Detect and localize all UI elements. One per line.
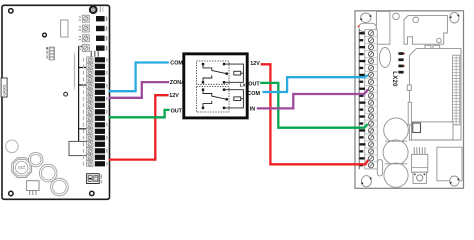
buzzer/hole bottom-right of LX20 xyxy=(450,176,460,186)
wire 12V (red) from relay module to LX20 board xyxy=(261,64,369,164)
label LX20 (rotated board name) xyxy=(391,71,398,87)
component outline (vertical rectangle) upper-left area xyxy=(61,20,68,37)
grommet ring at top of terminal strip xyxy=(90,6,104,13)
transformer oval LX20 xyxy=(379,48,390,68)
buzzer/hole top-left of LX20 xyxy=(360,13,371,22)
connector PCL-W (4-pin header) with silkscreen label xyxy=(46,47,54,60)
relay module LK enclosure xyxy=(184,54,247,118)
terminal strip TS2 zone/power rows (left board) xyxy=(83,57,107,167)
label ZONA (module left pin) xyxy=(170,80,185,86)
buzzer/hole below terminal strip LX20 xyxy=(361,176,371,187)
electrolytic capacitor C10 (top circle) xyxy=(384,118,409,143)
wire OUT (green) from relay module to LX20 board xyxy=(260,83,368,128)
test point circle left of strip xyxy=(64,92,68,96)
capacitor ring C3 xyxy=(51,178,69,196)
component outline rectangle above bottom rows xyxy=(69,141,87,155)
wire 12V (red) from left board to relay module xyxy=(109,95,169,159)
small square component below thin bar xyxy=(412,125,417,130)
component tall rectangle top area LX20 xyxy=(376,11,390,44)
wire IN (purple) from relay module to LX20 board xyxy=(257,90,368,109)
faint circle component above octagon xyxy=(6,140,19,153)
capacitor ring C1 bottom-left xyxy=(29,152,43,166)
label 12V (module left pin) xyxy=(169,93,179,99)
main module rectangle LX20 (chamfered corner) xyxy=(409,48,461,140)
capacitor ring C2 xyxy=(39,164,57,182)
terminal strip TS1 relay output rows (left board top) xyxy=(79,15,108,51)
buzzer/hole top-right of LX20 xyxy=(450,12,460,23)
svg-text:12V: 12V xyxy=(169,93,179,99)
svg-text:220: 220 xyxy=(17,165,25,170)
varistor/speaker 220 (octagon) xyxy=(12,158,32,178)
label LK (module name) xyxy=(240,83,247,89)
wire COM (blue) from left board to relay module xyxy=(109,63,169,92)
svg-text:COM: COM xyxy=(170,61,183,67)
label COM (module left pin) xyxy=(170,61,183,67)
label COM (module right pin) xyxy=(247,91,260,97)
svg-text:OUT: OUT xyxy=(248,82,260,88)
svg-text:OUT: OUT xyxy=(171,108,183,114)
capacitor junction chords xyxy=(385,141,408,164)
label OUT (module left pin) xyxy=(171,108,183,114)
svg-text:12V: 12V xyxy=(250,61,260,67)
electrolytic capacitor C12 (bottom circle) xyxy=(384,163,408,187)
mounting hole bottom-middle xyxy=(90,191,94,195)
relay outline (stadium) top-left of LX20 xyxy=(358,23,377,31)
bus bracket wire on board (vertical with taps) xyxy=(79,47,86,142)
label IN (module right pin) xyxy=(250,106,255,112)
small oval component bottom-left LX20 xyxy=(377,160,382,176)
label box UA003 on left edge xyxy=(1,78,7,97)
small tab on main module left edge xyxy=(407,85,411,90)
transistor/regulator Q1 (TO-220) bottom-left xyxy=(27,181,39,195)
mounting hole top-left xyxy=(9,9,13,13)
label OUT (module right pin) xyxy=(248,82,260,88)
two pad squares below heatsink xyxy=(425,45,440,50)
silkscreen relay contact labels (three vertical marks) xyxy=(91,51,99,57)
svg-text:UA003: UA003 xyxy=(3,85,7,96)
svg-text:LX20: LX20 xyxy=(391,71,398,87)
LED/jumper column on LX20 xyxy=(398,52,405,73)
mounting hole mid-left xyxy=(43,33,47,37)
silkscreen text column (vertical) left of mid terminals xyxy=(74,52,75,90)
mounting hole bottom-left xyxy=(9,191,13,195)
jumper block JP1 with DIP switches xyxy=(87,174,102,184)
wire ZONA (purple) from left board to relay module xyxy=(109,82,169,98)
small circle component top LX20 xyxy=(393,13,400,20)
transformer block bottom-right LX20 xyxy=(437,147,462,181)
voltage regulator with heatsink pins (bottom middle LX20) xyxy=(412,147,428,183)
thin bar component left of main module xyxy=(408,102,411,125)
PCB board U-A (left control panel) outline xyxy=(2,5,110,199)
label 12V (module right pin) xyxy=(250,61,260,67)
svg-text:COM: COM xyxy=(247,91,260,97)
svg-text:LX: LX xyxy=(240,83,247,89)
relay K2 (bottom) with coil xyxy=(196,87,243,112)
terminal strip TS3 (LX20 left edge) with screw terminals and labels xyxy=(359,30,377,170)
wire OUT (green) from left board to relay module xyxy=(109,110,170,117)
svg-text:IN: IN xyxy=(250,106,255,112)
PCB board LX20 outline xyxy=(355,11,464,189)
heatsink outline top LX20 xyxy=(404,15,447,44)
relay K1 (top) with coil xyxy=(196,61,243,84)
pin header / socket column inside main module xyxy=(452,55,459,125)
electrolytic capacitor C11 (middle circle) xyxy=(383,140,408,165)
wire COM (cyan) from relay module to LX20 board xyxy=(262,75,368,92)
inner rectangle at bottom of main module xyxy=(412,122,453,140)
